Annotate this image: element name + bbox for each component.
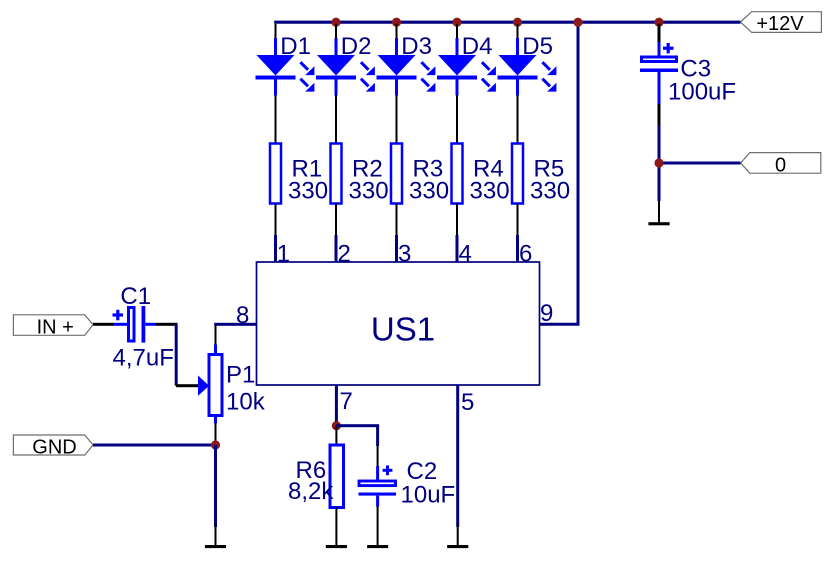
- wire GND down: [214, 445, 217, 527]
- wire net pin 1: [274, 235, 277, 263]
- svg-text:D1: D1: [280, 33, 311, 60]
- wire net to pin 9: [539, 22, 579, 324]
- junction above D3: [392, 18, 401, 27]
- resistor R1: [270, 144, 281, 204]
- svg-text:P1: P1: [226, 362, 255, 389]
- wire R2 to pin 2: [335, 204, 337, 236]
- LED D5: [498, 38, 557, 96]
- svg-text:US1: US1: [371, 310, 435, 347]
- ground below R6: [326, 545, 347, 548]
- wire D2 to R2: [335, 95, 337, 144]
- wire D4 to R4: [456, 95, 458, 144]
- svg-text:C1: C1: [120, 283, 151, 310]
- wire D4 top stub: [456, 24, 458, 38]
- wire C3 bottom: [658, 104, 661, 127]
- wire pin 5 stub: [457, 523, 459, 545]
- wire GND net: [93, 444, 216, 447]
- svg-text:D5: D5: [522, 33, 553, 60]
- tag IN +: [13, 315, 93, 339]
- wire D1 top stub: [275, 24, 277, 38]
- wire C2 top black: [377, 445, 379, 467]
- wire D2 top stub: [335, 24, 337, 38]
- wire D3 top stub: [396, 24, 398, 38]
- svg-text:+12V: +12V: [756, 13, 804, 35]
- net label 0: [741, 153, 821, 177]
- wire D3 to R3: [396, 95, 398, 144]
- svg-text:5: 5: [461, 389, 474, 416]
- power tag +12V: [740, 12, 821, 35]
- svg-text:4,7uF: 4,7uF: [113, 345, 174, 372]
- resistor R5: [512, 144, 523, 204]
- capacitor C2: [359, 465, 397, 506]
- wire R3 to pin 3: [396, 204, 398, 236]
- wire net C2 horizontal: [336, 424, 379, 427]
- ground below pin 5: [447, 545, 468, 548]
- junction at pin 7: [332, 421, 341, 430]
- LED D3: [377, 38, 436, 96]
- wire gnd stub: [215, 523, 217, 545]
- junction at P1 bottom: [211, 440, 220, 449]
- svg-text:10uF: 10uF: [401, 482, 456, 509]
- svg-text:0: 0: [775, 154, 786, 176]
- svg-text:330: 330: [470, 178, 510, 205]
- svg-text:10k: 10k: [226, 389, 266, 416]
- ground below C2: [367, 545, 388, 548]
- wire 0 to ground: [658, 201, 660, 223]
- svg-text:8,2k: 8,2k: [288, 478, 334, 505]
- svg-text:GND: GND: [32, 436, 76, 458]
- resistor R3: [391, 144, 402, 204]
- svg-text:8: 8: [236, 302, 249, 329]
- svg-text:330: 330: [530, 178, 570, 205]
- tag GND: [13, 435, 93, 458]
- wire net pin 3: [395, 235, 398, 263]
- wire D5 top stub: [517, 24, 519, 38]
- wire +12V bus: [274, 21, 740, 24]
- svg-text:D4: D4: [462, 33, 493, 60]
- svg-text:330: 330: [409, 178, 449, 205]
- wire net pin 6: [516, 235, 519, 263]
- junction at pin-9 net: [573, 18, 582, 27]
- wire C1 right: [156, 323, 178, 326]
- svg-text:330: 330: [349, 178, 389, 205]
- potentiometer P1: [198, 345, 222, 424]
- LED D4: [437, 38, 496, 96]
- wire net C1 down: [175, 324, 178, 385]
- wire to P1 wiper: [176, 384, 198, 387]
- svg-text:D2: D2: [341, 33, 372, 60]
- wire IN to C1: [93, 323, 114, 326]
- capacitor C3: [640, 24, 678, 104]
- wire net 0 horizontal: [659, 162, 741, 165]
- wire P1 bottom: [215, 424, 217, 443]
- IC US1: [257, 262, 540, 385]
- wire R6 top: [335, 426, 337, 445]
- wire net pin 2: [335, 235, 338, 263]
- wire pin 8 down: [215, 326, 217, 345]
- svg-text:330: 330: [288, 178, 328, 205]
- wire net pin 4: [456, 235, 459, 263]
- wire net pin 8: [214, 323, 256, 326]
- resistor R4: [452, 144, 463, 204]
- junction above D4: [452, 18, 461, 27]
- wire net 0 vertical: [658, 125, 661, 201]
- junction at C3 top: [654, 18, 663, 27]
- svg-text:9: 9: [540, 300, 553, 327]
- wire R6 bottom: [335, 508, 337, 546]
- wire D5 to R5: [517, 95, 519, 144]
- svg-text:7: 7: [340, 388, 353, 415]
- LED D2: [316, 38, 375, 96]
- wire R1 to pin 1: [275, 204, 277, 236]
- resistor R2: [331, 144, 342, 204]
- resistor R6: [330, 445, 344, 508]
- capacitor C1: [113, 306, 157, 343]
- wire net C2 vertical: [376, 426, 379, 446]
- wire D1 to R1: [275, 95, 277, 144]
- wire C2 bottom: [377, 506, 379, 545]
- svg-text:100uF: 100uF: [668, 79, 736, 106]
- wire net pin 5: [456, 385, 459, 527]
- junction above D2: [331, 18, 340, 27]
- wire R4 to pin 4: [456, 204, 458, 236]
- wire R5 to pin 6: [517, 204, 519, 236]
- svg-text:D3: D3: [401, 33, 432, 60]
- wire net pin 7: [335, 385, 338, 426]
- LED D1: [256, 38, 315, 96]
- junction at 0 net: [654, 158, 663, 167]
- junction above D5: [513, 18, 522, 27]
- svg-text:IN +: IN +: [37, 316, 74, 338]
- ground below P1: [205, 545, 226, 548]
- ground below 0 net: [648, 222, 669, 225]
